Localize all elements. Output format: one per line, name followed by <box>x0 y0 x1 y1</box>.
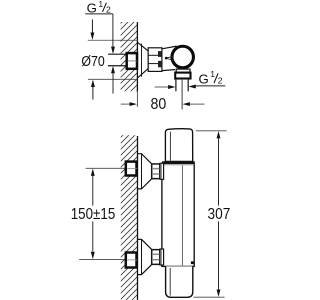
svg-text:80: 80 <box>151 96 167 113</box>
svg-text:1: 1 <box>210 69 215 79</box>
svg-text:2: 2 <box>218 75 223 85</box>
svg-text:Ø70: Ø70 <box>81 54 104 70</box>
svg-text:307: 307 <box>208 206 231 223</box>
svg-text:G: G <box>87 0 97 15</box>
svg-text:G: G <box>199 71 209 86</box>
svg-text:150±15: 150±15 <box>71 206 116 223</box>
svg-text:2: 2 <box>106 4 111 14</box>
svg-text:1: 1 <box>98 0 103 9</box>
